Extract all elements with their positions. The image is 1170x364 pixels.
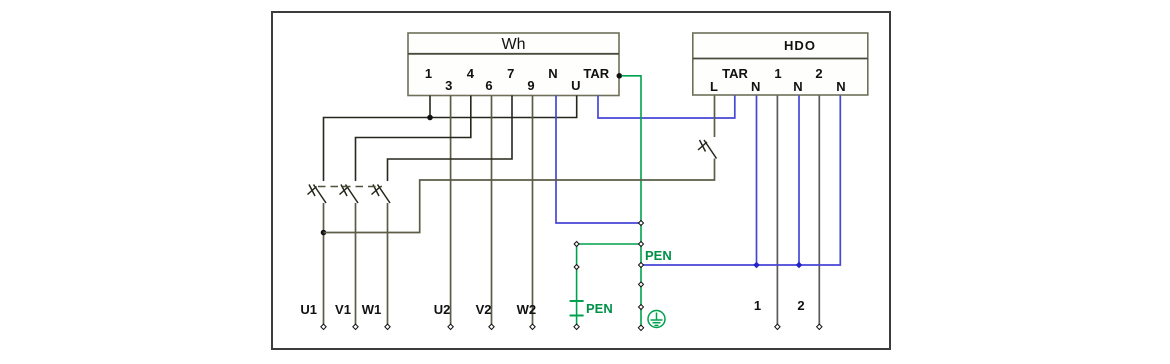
terminal marker HDO out 2: [817, 324, 822, 329]
wire: HDO N1 (blue): [756, 96, 758, 266]
svg-text:W1: W1: [362, 302, 382, 317]
wire: HDO output 2: [818, 96, 820, 325]
node marker (641,265): [639, 263, 644, 268]
wire: terminal 7 to breaker pole 3 input: [388, 96, 513, 182]
breaker pole 1 (Q1): [308, 185, 327, 325]
switch in HDO L lead: [698, 96, 717, 159]
wire: terminal 6 to V2: [491, 96, 493, 325]
svg-text:2: 2: [815, 66, 822, 81]
PEN link bar upper: [570, 300, 584, 302]
terminal marker PEN right: [638, 325, 643, 330]
node marker (576.6,244): [574, 242, 579, 247]
breaker pole 2 (Q1): [340, 185, 359, 325]
wire: blue N bus from PEN to HDO N3: [641, 96, 840, 266]
svg-text:9: 9: [527, 78, 534, 93]
svg-text:U1: U1: [300, 302, 317, 317]
node marker (641,244): [639, 242, 644, 247]
svg-text:N: N: [751, 79, 760, 94]
terminal marker V1: [353, 324, 358, 329]
svg-text:1: 1: [754, 298, 761, 313]
junction diamond N1: [753, 262, 760, 269]
svg-text:7: 7: [507, 66, 514, 81]
svg-text:PEN: PEN: [586, 301, 613, 316]
green PEN left branch vertical: [576, 244, 578, 326]
node marker (641,284.4): [639, 282, 644, 287]
meter box Wh: [408, 33, 619, 96]
terminal marker V2: [489, 324, 494, 329]
terminal marker U2: [448, 324, 453, 329]
node marker (576.6,267): [574, 265, 579, 270]
svg-text:TAR: TAR: [722, 66, 748, 81]
svg-text:4: 4: [467, 66, 475, 81]
wire: terminal 4 to breaker pole 2 input: [356, 96, 471, 182]
wire: Wh TAR to HDO TAR (blue): [598, 96, 735, 119]
wire: U terminal down, left to breaker pole 1 input: [324, 96, 577, 182]
svg-text:PEN: PEN: [645, 248, 672, 263]
svg-text:U2: U2: [434, 302, 451, 317]
junction dot Wh right edge (PEN tap): [617, 73, 623, 79]
svg-text:N: N: [793, 79, 802, 94]
wire: HDO N2 (blue): [798, 96, 800, 266]
svg-text:2: 2: [797, 298, 804, 313]
terminal marker U1: [321, 324, 326, 329]
svg-text:Wh: Wh: [502, 36, 526, 53]
wire: N terminal to PEN conductor (blue): [556, 96, 641, 224]
wire: terminal 3 to U2: [450, 96, 452, 325]
breaker linkage (dashed): [318, 186, 382, 188]
wire: terminal 9 to W2: [532, 96, 534, 325]
PEN link bar lower: [570, 315, 584, 317]
svg-text:HDO: HDO: [784, 38, 816, 53]
terminal marker PEN left: [574, 324, 579, 329]
wire: HDO L feed from pole 1 output: [324, 159, 715, 233]
svg-text:W2: W2: [517, 302, 537, 317]
node marker (643,223): [639, 221, 644, 226]
junction dot pole1 output / HDO L feed: [321, 230, 327, 236]
breaker pole 3 (Q1): [372, 185, 391, 325]
terminal marker W1: [385, 324, 390, 329]
wire: green PEN conductor from Wh to bottom: [622, 76, 642, 326]
wire: terminal 1 down to junction: [429, 96, 431, 118]
svg-text:3: 3: [445, 78, 452, 93]
wire: HDO output 1: [776, 96, 778, 325]
frame border: [272, 12, 890, 349]
svg-text:N: N: [836, 79, 845, 94]
svg-text:L: L: [710, 79, 718, 94]
svg-text:N: N: [548, 66, 557, 81]
svg-text:TAR: TAR: [583, 66, 609, 81]
svg-text:1: 1: [425, 66, 432, 81]
earth symbol: [648, 311, 665, 328]
junction dot terminal1/U: [427, 115, 433, 121]
terminal marker HDO out 1: [775, 324, 780, 329]
terminal marker W2: [530, 324, 535, 329]
junction diamond N2: [796, 262, 803, 269]
receiver box HDO: [693, 33, 868, 95]
svg-text:U: U: [571, 78, 580, 93]
svg-text:6: 6: [485, 78, 492, 93]
node marker (641,307): [639, 305, 644, 310]
svg-text:1: 1: [774, 66, 781, 81]
svg-text:V2: V2: [476, 302, 492, 317]
green PEN branch horizontal: [577, 243, 641, 245]
svg-text:V1: V1: [335, 302, 351, 317]
